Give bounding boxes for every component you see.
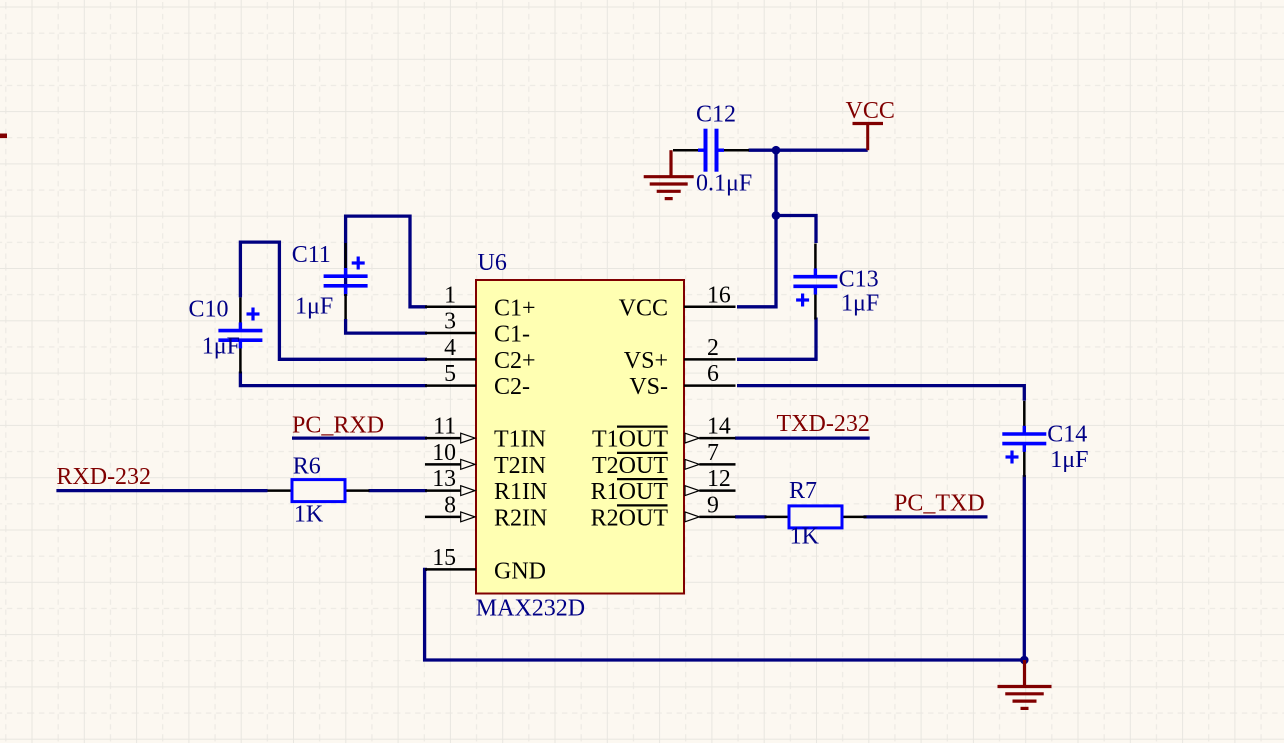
svg-text:5: 5 <box>444 361 456 387</box>
svg-text:C1+: C1+ <box>494 295 536 321</box>
svg-text:6: 6 <box>707 361 719 387</box>
svg-text:R1IN: R1IN <box>494 479 547 505</box>
svg-text:3: 3 <box>444 309 456 335</box>
svg-text:2: 2 <box>707 335 719 361</box>
svg-text:MAX232D: MAX232D <box>476 595 585 621</box>
svg-text:15: 15 <box>432 545 456 571</box>
svg-text:0.1μF: 0.1μF <box>696 171 752 197</box>
svg-text:C14: C14 <box>1047 422 1087 448</box>
svg-text:VS-: VS- <box>629 374 668 400</box>
svg-text:R2IN: R2IN <box>494 505 547 531</box>
svg-text:1μF: 1μF <box>202 334 240 360</box>
svg-text:1K: 1K <box>294 502 324 528</box>
svg-text:1μF: 1μF <box>1050 447 1088 473</box>
svg-text:1: 1 <box>444 282 456 308</box>
svg-text:9: 9 <box>707 492 719 518</box>
svg-text:T1OUT: T1OUT <box>592 427 668 453</box>
svg-text:PC_TXD: PC_TXD <box>894 491 985 517</box>
svg-text:C13: C13 <box>839 267 879 293</box>
svg-text:T2IN: T2IN <box>494 453 546 479</box>
svg-text:GND: GND <box>494 558 546 584</box>
svg-text:11: 11 <box>433 414 456 440</box>
svg-text:VS+: VS+ <box>624 348 668 374</box>
svg-text:10: 10 <box>432 440 456 466</box>
svg-text:RXD-232: RXD-232 <box>56 464 151 490</box>
svg-text:PC_RXD: PC_RXD <box>292 413 384 439</box>
svg-text:R2OUT: R2OUT <box>591 505 669 531</box>
svg-text:1μF: 1μF <box>841 291 879 317</box>
svg-text:4: 4 <box>444 335 456 361</box>
svg-text:T2OUT: T2OUT <box>592 453 668 479</box>
svg-text:16: 16 <box>707 282 731 308</box>
svg-text:7: 7 <box>707 440 719 466</box>
svg-text:U6: U6 <box>478 250 507 276</box>
svg-text:1K: 1K <box>790 524 820 550</box>
svg-text:C1-: C1- <box>494 322 530 348</box>
svg-text:TXD-232: TXD-232 <box>777 411 870 437</box>
svg-text:1μF: 1μF <box>295 294 333 320</box>
svg-text:8: 8 <box>444 492 456 518</box>
svg-text:C2-: C2- <box>494 374 530 400</box>
svg-text:R1OUT: R1OUT <box>591 479 669 505</box>
svg-text:C10: C10 <box>189 297 229 323</box>
svg-text:T1IN: T1IN <box>494 427 546 453</box>
svg-text:R6: R6 <box>293 454 321 480</box>
svg-text:C2+: C2+ <box>494 348 536 374</box>
svg-text:R7: R7 <box>789 478 817 504</box>
svg-text:VCC: VCC <box>846 98 895 124</box>
svg-text:12: 12 <box>707 466 731 492</box>
svg-text:VCC: VCC <box>619 295 668 321</box>
svg-text:13: 13 <box>432 466 456 492</box>
svg-text:C11: C11 <box>292 242 331 268</box>
svg-text:14: 14 <box>707 414 731 440</box>
svg-text:C12: C12 <box>696 102 736 128</box>
